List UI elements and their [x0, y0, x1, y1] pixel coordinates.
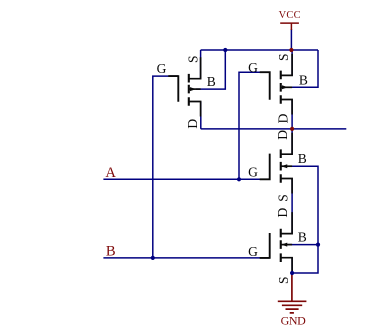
svg-text:GND: GND — [281, 313, 307, 327]
svg-text:G: G — [248, 164, 258, 179]
svg-text:VCC: VCC — [279, 10, 301, 21]
svg-text:G: G — [248, 244, 258, 259]
svg-text:D: D — [276, 113, 291, 123]
svg-text:B: B — [207, 74, 216, 89]
svg-text:S: S — [276, 276, 291, 284]
svg-text:D: D — [275, 130, 290, 140]
svg-text:B: B — [298, 230, 307, 245]
svg-text:S: S — [275, 194, 290, 202]
svg-text:B: B — [106, 244, 116, 260]
svg-text:B: B — [298, 151, 307, 166]
svg-text:B: B — [299, 72, 308, 87]
svg-text:G: G — [248, 60, 258, 75]
svg-text:D: D — [275, 207, 290, 217]
svg-text:S: S — [276, 54, 291, 62]
svg-text:S: S — [185, 56, 200, 64]
svg-text:D: D — [185, 119, 200, 129]
svg-text:A: A — [105, 165, 116, 181]
svg-text:G: G — [157, 61, 167, 76]
